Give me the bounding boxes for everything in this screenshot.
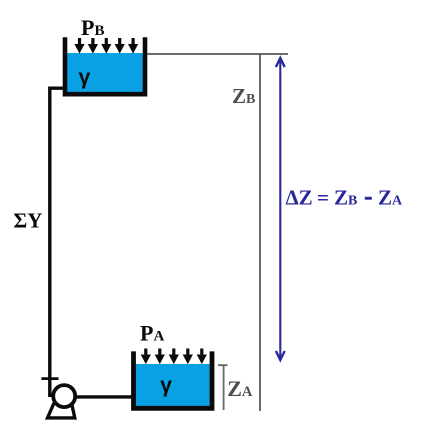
svg-text:ΔZ=ZBZA: ΔZ=ZBZA [286,185,404,209]
tank B water [65,53,145,93]
pressure arrows P_B [74,38,138,54]
tank A walls [134,351,213,408]
Z_A bracket [218,365,228,410]
wire: suction pipe (pump up to tank B) [50,88,65,397]
pump [53,385,75,407]
minus sign in equation [365,197,372,200]
delta-Z double arrow [276,58,285,360]
tank B walls [65,37,145,94]
wire: discharge pipe (pump to tank A) [70,395,134,398]
pipe flange tick [41,377,58,380]
reference line vertical (gray) [259,54,261,411]
svg-text:ΣY: ΣY [14,209,43,233]
svg-text:γ: γ [79,66,91,89]
tank A water [134,364,213,408]
svg-text:γ: γ [160,374,172,397]
pump base [48,403,75,418]
datum line from tank B (horizontal gray) [147,53,288,55]
pressure arrows P_A [141,349,207,365]
